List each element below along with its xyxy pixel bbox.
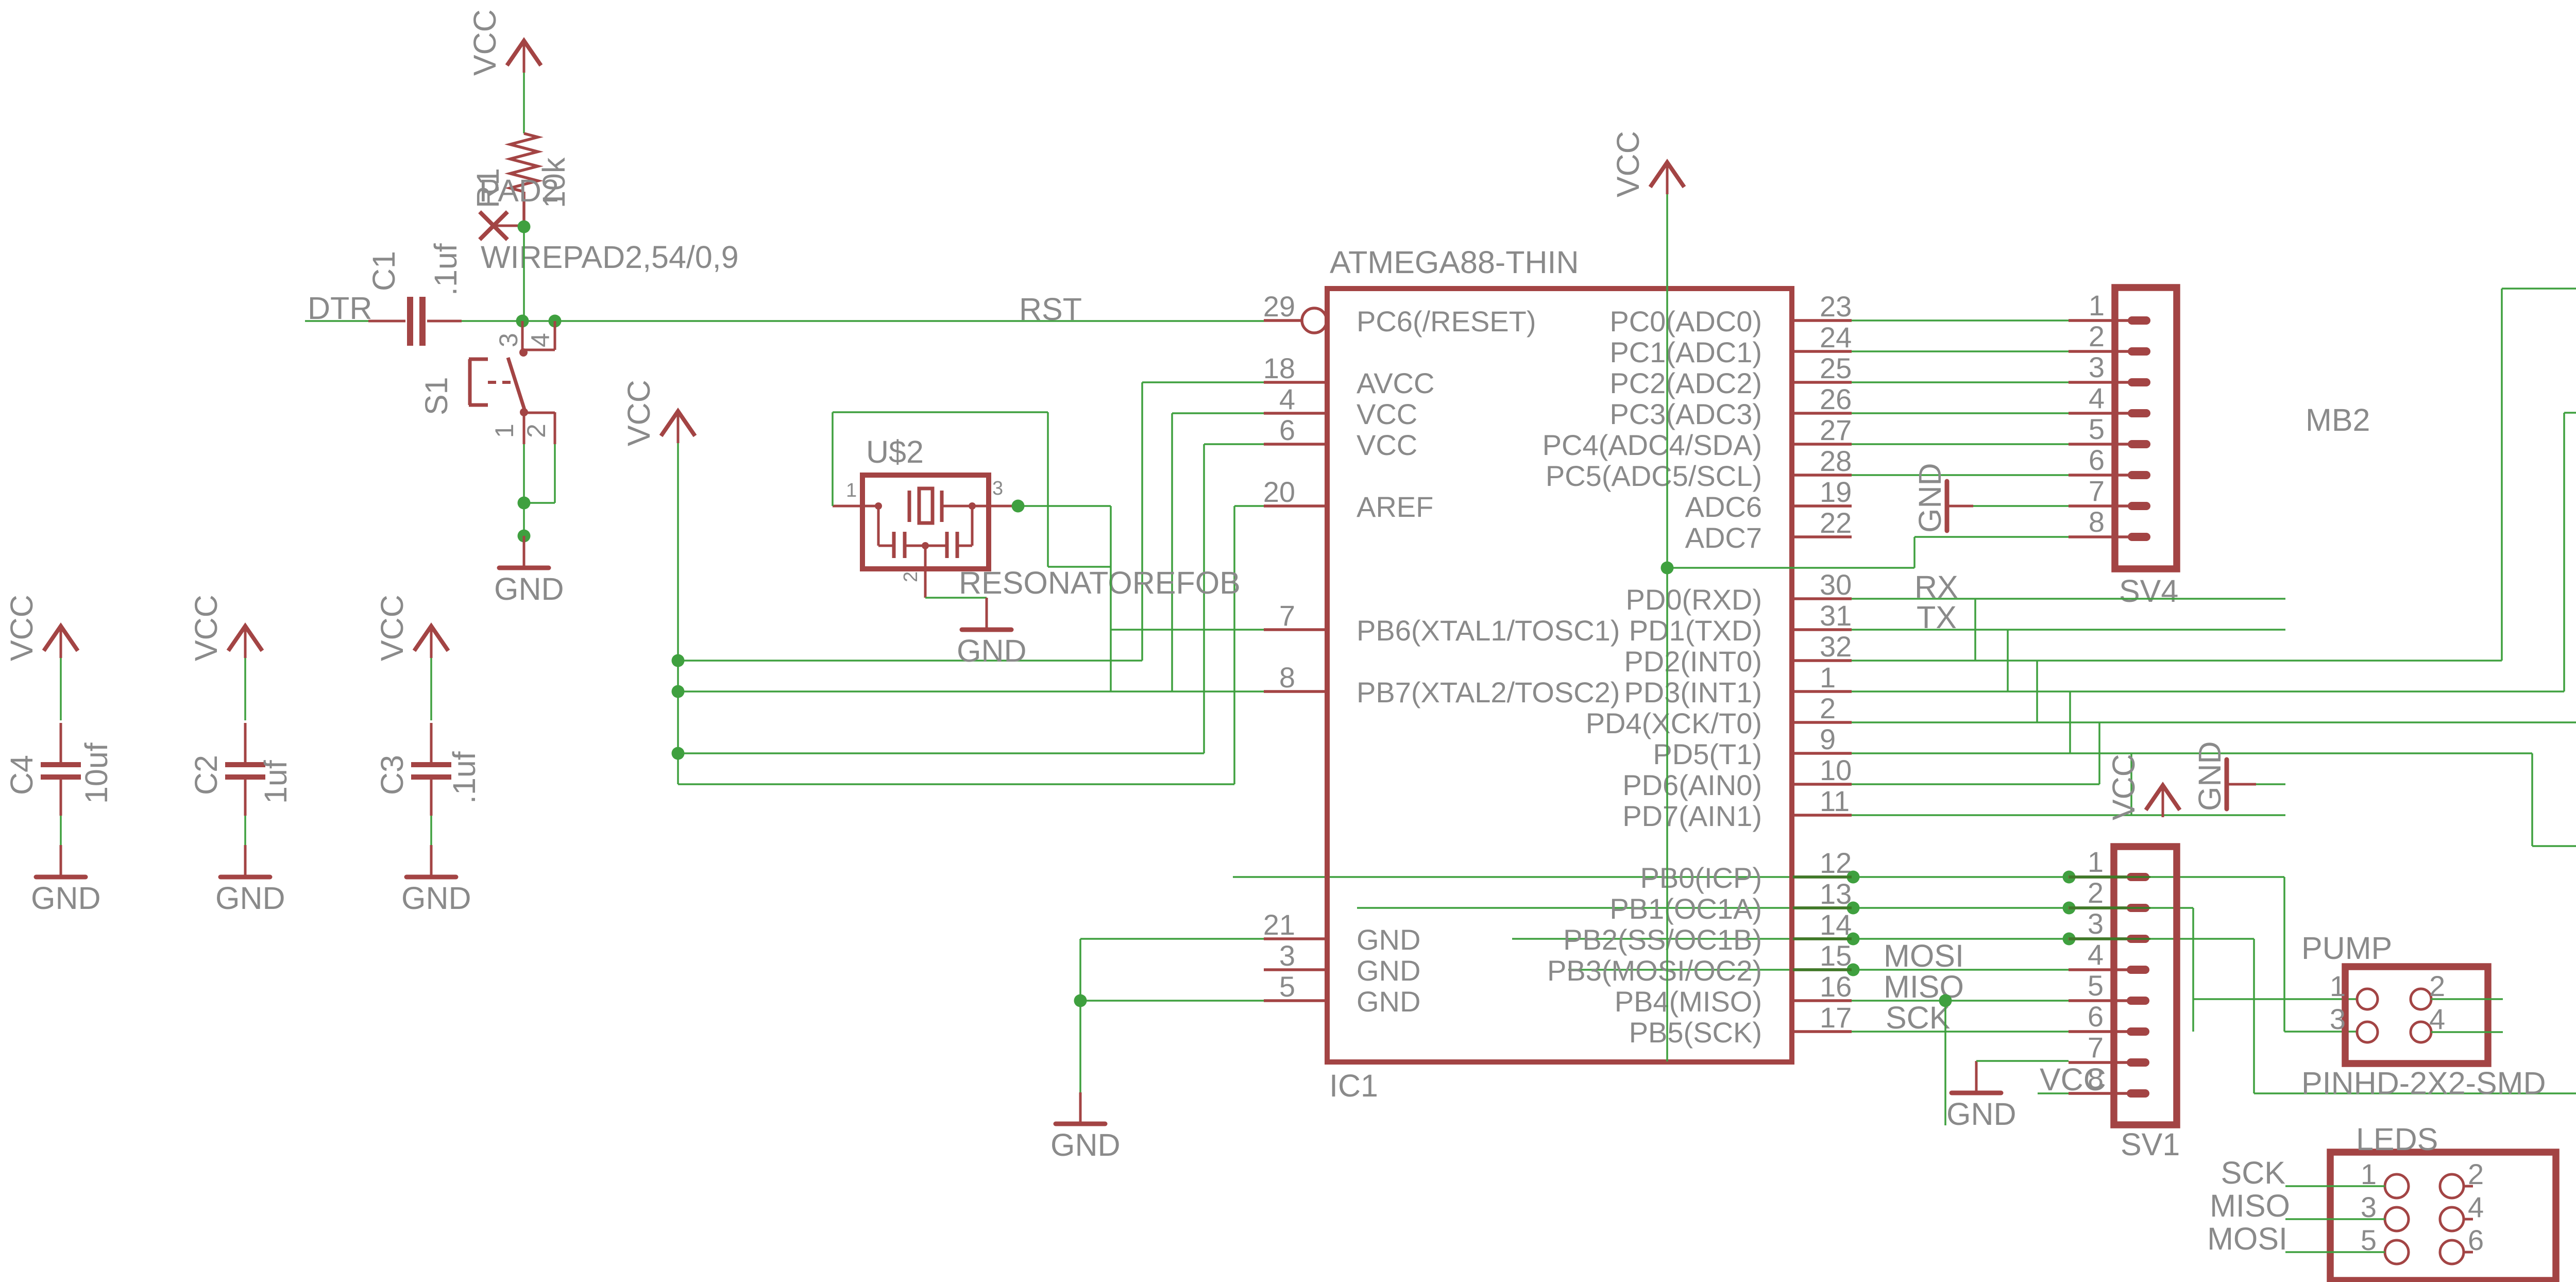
wire feed IR4 pin1 [2532, 845, 2576, 847]
junction MISO row [1939, 994, 1952, 1007]
wire U$2 pin3 to node A [1012, 505, 1111, 507]
svg-text:2: 2 [2088, 876, 2104, 909]
wire PB2 down to MYIR [2253, 939, 2255, 1093]
wire overlap on IC pin [1793, 937, 1852, 940]
wire overlap on SV1 pad [2127, 876, 2150, 878]
svg-text:.1uf: .1uf [447, 751, 482, 804]
ground (rotated) at SV4 pin7 [1912, 463, 1973, 533]
junction R1/PAD2/wire [518, 221, 531, 233]
svg-text:PC5(ADC5/SCL): PC5(ADC5/SCL) [1546, 460, 1762, 492]
wire PC to SV4 [1852, 443, 2069, 445]
svg-text:GND: GND [215, 881, 285, 916]
pin 25 PC2(ADC2) [1792, 381, 1852, 384]
ground (rotated) near PD6 stub [2192, 741, 2256, 811]
connector SV4 (pin header 1x8) [2069, 288, 2178, 609]
svg-text:VCC: VCC [1611, 131, 1646, 197]
svg-text:29: 29 [1263, 290, 1295, 323]
ground at SV1 pin7 [1946, 1061, 2016, 1132]
svg-text:GND: GND [1357, 954, 1420, 987]
svg-text:AVCC: AVCC [1357, 367, 1434, 399]
pin 12 PB0(ICP) [1792, 875, 1852, 879]
VCC supply above R1 [467, 9, 541, 76]
wire VCC pin6 riser [1203, 444, 1205, 753]
svg-text:PC4(ADC4/SDA): PC4(ADC4/SDA) [1543, 429, 1762, 461]
svg-text:C2: C2 [189, 755, 224, 795]
pin 6 VCC [1264, 443, 1327, 446]
junction at IC pin [1847, 902, 1860, 915]
svg-text:24: 24 [1820, 321, 1852, 353]
svg-text:GND: GND [1357, 923, 1420, 956]
wire to pin VCC6 [1204, 443, 1264, 445]
wire C4 to GND [60, 816, 62, 845]
junction GND [1074, 994, 1087, 1007]
pin 8 PB7(XTAL2/TOSC2) [1264, 690, 1327, 693]
wire VCC branch up [1913, 537, 1916, 568]
svg-text:9: 9 [1820, 723, 1836, 755]
svg-text:3: 3 [1279, 939, 1295, 972]
svg-text:PINHD-2X2-SMD: PINHD-2X2-SMD [2301, 1066, 2546, 1101]
wire VCC to SV4 pin8 [1914, 536, 2069, 538]
wire to pin AREF [1234, 505, 1264, 507]
pin 26 PC3(ADC3) [1792, 412, 1852, 415]
svg-text:IC1: IC1 [1329, 1068, 1378, 1103]
svg-text:ADC7: ADC7 [1685, 521, 1762, 554]
wire VCC vertical through IC [1666, 194, 1668, 1061]
svg-text:2: 2 [2089, 320, 2105, 352]
svg-text:5: 5 [2089, 413, 2105, 445]
wire VCC stub SV1 pin8 [2038, 1092, 2069, 1094]
wire overlap on SV1 pin [2069, 906, 2127, 909]
svg-text:2: 2 [2429, 970, 2445, 1002]
wire S1 pins join [524, 502, 555, 504]
wire MOSI to LEDS [2285, 1251, 2385, 1253]
wire riser to IR4 [2531, 753, 2533, 846]
junction U$2 pin3 [1012, 500, 1025, 513]
wire PD3 to IR2 riser [1852, 690, 2564, 693]
svg-text:17: 17 [1820, 1001, 1852, 1034]
svg-text:PB3(MOSI/OC2): PB3(MOSI/OC2) [1547, 954, 1762, 987]
wire to MYIR pin3 [2254, 1092, 2576, 1094]
capacitor C3 .1uf [411, 723, 451, 816]
pin 3 GND [1264, 968, 1327, 971]
svg-text:RST: RST [1019, 292, 1082, 327]
svg-text:1: 1 [846, 480, 857, 501]
wire PB4 MISO to SV1 [1852, 1000, 2069, 1002]
wire RX net (PD0) [1852, 598, 2285, 600]
svg-text:ADC6: ADC6 [1685, 491, 1762, 523]
svg-text:3: 3 [2330, 1003, 2346, 1035]
wire GND vertical [1079, 939, 1081, 1092]
wire overlap on SV1 pin [2069, 937, 2127, 940]
svg-text:PUMP: PUMP [2301, 931, 2392, 966]
wire MISO row drop [1944, 1001, 1946, 1125]
pin 2 PD4(XCK/T0) [1792, 721, 1852, 724]
svg-text:16: 16 [1820, 970, 1852, 1003]
svg-text:26: 26 [1820, 383, 1852, 415]
svg-text:31: 31 [1820, 599, 1852, 632]
svg-text:2: 2 [522, 424, 551, 438]
svg-text:10uf: 10uf [79, 742, 114, 804]
VCC supply above C3 [375, 595, 448, 661]
wire PB0 net across IC to SV1/PUMP [1233, 876, 2284, 878]
svg-text:SV1: SV1 [2121, 1127, 2180, 1162]
svg-text:1: 1 [490, 424, 519, 438]
wire riser to IR2 [2563, 413, 2565, 691]
svg-text:19: 19 [1820, 476, 1852, 508]
capacitor C2 1uf [225, 723, 265, 816]
svg-text:U$2: U$2 [866, 434, 924, 469]
svg-text:SCK: SCK [1886, 1000, 1950, 1035]
wire C3 to GND [430, 816, 432, 845]
svg-text:PC6(/RESET): PC6(/RESET) [1357, 305, 1536, 338]
wirepad PAD2 (X symbol) [479, 173, 739, 275]
svg-text:PB5(SCK): PB5(SCK) [1629, 1016, 1762, 1049]
wire C2 to GND [244, 816, 246, 845]
svg-text:30: 30 [1820, 568, 1852, 601]
svg-text:PD3(INT1): PD3(INT1) [1624, 676, 1762, 709]
wire PD2 to IR1 riser [1852, 660, 2502, 662]
wire overlap on IC pin [1793, 875, 1852, 879]
svg-text:GND: GND [401, 881, 471, 916]
svg-text:25: 25 [1820, 352, 1852, 384]
wire PC to SV4 [1852, 350, 2069, 352]
pin 21 GND [1264, 937, 1327, 940]
wire stair PD1-PD3 [2007, 630, 2009, 691]
pin 31 PD1(TXD) [1792, 628, 1852, 631]
wire RST net C1 to IC PC6 [462, 320, 1264, 322]
wire stair PD5-PD7 [2130, 753, 2132, 815]
wire overlap on IC pin [1793, 968, 1852, 971]
pin 11 PD7(AIN1) [1792, 814, 1852, 817]
pin 9 PD5(T1) [1792, 752, 1852, 755]
svg-text:7: 7 [1279, 599, 1295, 632]
R1 lead to wirepad node [522, 192, 526, 227]
svg-text:GND: GND [957, 633, 1027, 668]
svg-text:27: 27 [1820, 414, 1852, 446]
wire PD7 / VCC stub [1852, 814, 2285, 816]
wire PC to SV4 [1852, 319, 2069, 322]
wire to GND symbol [523, 503, 525, 536]
pin 32 PD2(INT0) [1792, 659, 1852, 662]
svg-text:GND: GND [1912, 463, 1947, 533]
junction at SV1 pin [2063, 933, 2076, 946]
svg-text:PD6(AIN0): PD6(AIN0) [1622, 769, 1762, 801]
resonator U$2 RESONATOREFOB [833, 434, 1241, 600]
wire stair PD0-PD2 [1974, 599, 1976, 661]
pin 22 ADC7 [1792, 535, 1852, 538]
svg-text:14: 14 [1820, 908, 1852, 941]
pin 13 PB1(OC1A) [1792, 906, 1852, 909]
svg-text:1uf: 1uf [258, 760, 293, 804]
svg-text:13: 13 [1820, 878, 1852, 910]
wire GND pin5 [1080, 1000, 1264, 1002]
svg-text:4: 4 [2468, 1191, 2484, 1223]
junction rail AVCC [672, 654, 685, 667]
svg-text:GND: GND [494, 571, 564, 606]
wire S1 pin2 to GND [554, 444, 556, 503]
pin 5 GND [1264, 999, 1327, 1002]
wire PC to SV4 [1852, 412, 2069, 414]
pin 18 AVCC [1264, 381, 1327, 384]
junction at IC pin [1847, 871, 1860, 884]
svg-text:15: 15 [1820, 939, 1852, 972]
switch S1 [419, 321, 555, 444]
svg-text:GND: GND [2192, 741, 2227, 811]
svg-text:11: 11 [1820, 785, 1850, 817]
wire VCC to C2 [244, 658, 246, 720]
svg-text:PC0(ADC0): PC0(ADC0) [1609, 305, 1762, 338]
svg-text:ATMEGA88-THIN: ATMEGA88-THIN [1330, 245, 1579, 280]
wire AVCC riser [1141, 382, 1143, 661]
pin 7 PB6(XTAL1/TOSC1) [1264, 628, 1327, 631]
wire TX net (PD1) [1852, 629, 2285, 631]
svg-text:1: 1 [2330, 970, 2346, 1002]
wire AREF riser [1233, 506, 1235, 784]
pin 1 PD3(INT1) [1792, 690, 1852, 693]
wire to pin AVCC [1142, 381, 1264, 383]
svg-text:8: 8 [2089, 505, 2105, 538]
svg-text:PD0(RXD): PD0(RXD) [1626, 583, 1762, 616]
pin 27 PC4(ADC4/SDA) [1792, 443, 1852, 446]
wire VCC branch to SV4 pin8 [1667, 567, 1914, 569]
svg-text:6: 6 [2468, 1224, 2484, 1256]
wire to PUMP pin1 [2193, 998, 2357, 1000]
svg-text:22: 22 [1820, 507, 1852, 539]
junction rail VCC6 [672, 747, 685, 760]
svg-text:PD7(AIN1): PD7(AIN1) [1622, 800, 1762, 832]
wire stair PD4-PD6 [2098, 722, 2100, 784]
wire overlap on SV1 pin [2069, 875, 2127, 879]
svg-text:4: 4 [2088, 938, 2104, 971]
wire to pin VCC4 [1172, 412, 1264, 414]
wire VCC rail vertical [677, 443, 679, 784]
wire GND to SV1 pin7 [1976, 1060, 2069, 1062]
wire rail to AREF riser [678, 783, 1234, 785]
svg-text:VCC: VCC [375, 595, 410, 661]
pin 23 PC0(ADC0) [1792, 319, 1852, 322]
wire stair PD3-PD5 [2069, 691, 2071, 753]
wire stair PD2-PD4 [2036, 661, 2038, 722]
svg-text:4: 4 [2429, 1003, 2445, 1035]
wire feed IR1 pin1 [2502, 288, 2576, 290]
svg-text:RESONATOREFOB: RESONATOREFOB [959, 565, 1241, 600]
wire VCC to C3 [430, 658, 432, 720]
pin 14 PB2(SS/OC1B) [1792, 937, 1852, 940]
wire PUMP pin4 stub [2431, 1031, 2503, 1033]
svg-text:PD4(XCK/T0): PD4(XCK/T0) [1586, 707, 1762, 739]
svg-text:SV4: SV4 [2119, 573, 2178, 609]
svg-text:32: 32 [1820, 630, 1852, 663]
pin 4 VCC [1264, 412, 1327, 415]
svg-text:PC3(ADC3): PC3(ADC3) [1609, 398, 1762, 430]
svg-text:PB4(MISO): PB4(MISO) [1615, 985, 1762, 1018]
junction VCC branch [1661, 562, 1674, 575]
svg-text:LEDS: LEDS [2356, 1122, 2438, 1157]
wire rail to AVCC riser [678, 660, 1142, 662]
svg-text:GND: GND [1357, 985, 1420, 1018]
capacitor C1 .1uf [366, 243, 463, 346]
connector LEDS (2x3) [2330, 1122, 2556, 1280]
svg-text:23: 23 [1820, 290, 1852, 323]
svg-text:MISO: MISO [1884, 969, 1964, 1004]
wire MISO to LEDS [2285, 1218, 2385, 1220]
svg-text:12: 12 [1820, 847, 1852, 879]
VCC supply rail left of IC [621, 380, 695, 446]
ground under C4 [31, 845, 101, 916]
ground under C3 [401, 845, 471, 916]
svg-text:VCC: VCC [1357, 429, 1417, 461]
svg-text:C3: C3 [375, 755, 410, 795]
wire feed IR2 top [2564, 412, 2576, 414]
VCC supply above C2 [189, 595, 262, 661]
wire bridge over U$2 [833, 411, 1048, 413]
wire bridge down [1047, 412, 1049, 567]
junction rail VCC4 [672, 685, 685, 698]
pin 28 PC5(ADC5/SCL) [1792, 474, 1852, 477]
svg-text:3: 3 [494, 333, 523, 347]
svg-text:2: 2 [2468, 1158, 2484, 1190]
wire to PUMP pin3 [2284, 1031, 2357, 1033]
svg-text:RX: RX [1914, 569, 1958, 604]
wire PB2 net across IC to SV1/MYIR [1512, 938, 2254, 940]
svg-text:6: 6 [1279, 414, 1295, 446]
junction at IC pin [1847, 933, 1860, 946]
junction at IC pin [1847, 964, 1860, 976]
wire S1 pin1 to GND [523, 444, 525, 503]
wire bridge to node A [1048, 566, 1111, 568]
svg-text:5: 5 [2088, 969, 2104, 1002]
svg-text:GND: GND [31, 881, 101, 916]
svg-text:GND: GND [1050, 1127, 1121, 1162]
wire node A vertical [1110, 506, 1112, 691]
wire U$2 pin2 to GND [925, 597, 987, 599]
svg-text:VCC: VCC [1357, 398, 1417, 430]
svg-text:PD5(T1): PD5(T1) [1653, 738, 1762, 770]
wire GND to SV4 pin7 [1973, 505, 2069, 507]
junction S1 gnd 2 [518, 530, 531, 543]
connector SV1 (pin header 1x8) [2069, 846, 2180, 1162]
junction RST/S1 pin3 [516, 315, 529, 328]
svg-text:2: 2 [1820, 692, 1836, 724]
wire rail to VCC pin6 riser [678, 752, 1204, 754]
wire GND stub [2256, 783, 2285, 785]
wire PB1 net across IC to SV1/PUMP [1357, 907, 2193, 909]
wire PB3 MOSI net across IC to SV1 [1568, 969, 2069, 971]
svg-text:20: 20 [1263, 476, 1295, 508]
wire to pin PB6 [1111, 629, 1264, 631]
pin 20 AREF [1264, 504, 1327, 508]
wire SCK to LEDS [2285, 1185, 2385, 1187]
junction RST/S1 pin4 [549, 315, 562, 328]
wire PC to SV4 [1852, 474, 2069, 476]
wire VCC to R1 [523, 73, 525, 133]
wire GND pin21 [1080, 938, 1264, 940]
wire VCC to C4 [60, 658, 62, 720]
wire PUMP pin2 stub [2431, 998, 2503, 1000]
VCC supply above IC [1611, 131, 1684, 197]
svg-text:3: 3 [2088, 907, 2104, 940]
svg-text:MOSI: MOSI [1884, 938, 1964, 973]
svg-text:6: 6 [2088, 1000, 2104, 1033]
VCC supply on PD7 row [2106, 754, 2180, 820]
pin 10 PD6(AIN0) [1792, 783, 1852, 786]
svg-text:7: 7 [2089, 475, 2105, 507]
wire VCC pin4 riser [1171, 413, 1173, 691]
svg-text:PD2(INT0): PD2(INT0) [1624, 645, 1762, 678]
svg-text:PB6(XTAL1/TOSC1): PB6(XTAL1/TOSC1) [1357, 614, 1620, 647]
connector PUMP (2x2 SMD) [2301, 931, 2546, 1101]
svg-text:VCC: VCC [189, 595, 224, 661]
svg-text:1: 1 [2089, 289, 2105, 322]
pin 16 PB4(MISO) [1792, 999, 1852, 1002]
svg-text:MOSI: MOSI [2207, 1221, 2287, 1256]
ground under C2 [215, 845, 285, 916]
wire overlap on SV1 pad [2127, 938, 2150, 940]
pin 15 PB3(MOSI/OC2) [1792, 968, 1852, 971]
capacitor C4 10uf [41, 723, 81, 816]
ground under U$2 [957, 598, 1027, 668]
svg-text:5: 5 [1279, 970, 1295, 1003]
pin 17 PB5(SCK) [1792, 1030, 1852, 1033]
wire wirepad node to DTR/RST net [523, 227, 525, 321]
svg-text:S1: S1 [419, 377, 454, 415]
wire PD6 [1852, 783, 2099, 785]
svg-text:GND: GND [1946, 1097, 2016, 1132]
svg-text:C4: C4 [4, 755, 39, 795]
svg-text:18: 18 [1263, 352, 1295, 384]
wire overlap on IC pin [1793, 906, 1852, 909]
wire riser to IR1 [2501, 289, 2503, 661]
junction at SV1 pin [2063, 871, 2076, 884]
svg-text:AREF: AREF [1357, 491, 1433, 523]
wire PC to SV4 [1852, 381, 2069, 383]
svg-text:C1: C1 [366, 251, 401, 291]
svg-text:PB1(OC1A): PB1(OC1A) [1609, 892, 1762, 925]
svg-text:PB2(SS/OC1B): PB2(SS/OC1B) [1563, 923, 1762, 956]
svg-text:TX: TX [1917, 600, 1957, 635]
svg-text:VCC: VCC [2040, 1062, 2106, 1097]
wire overlap on SV1 pad [2127, 907, 2150, 909]
svg-text:SCK: SCK [2221, 1155, 2285, 1190]
pin 24 PC1(ADC1) [1792, 350, 1852, 353]
svg-text:.1uf: .1uf [428, 243, 463, 296]
wire PB5 SCK to SV1 [1852, 1031, 2069, 1033]
pin 30 PD0(RXD) [1792, 597, 1852, 600]
svg-text:28: 28 [1820, 445, 1852, 477]
svg-text:4: 4 [526, 333, 555, 347]
pin 29 PC6(/RESET) with bubble [1264, 319, 1302, 322]
svg-text:PAD2: PAD2 [479, 173, 559, 208]
svg-text:8: 8 [1279, 661, 1295, 694]
VCC supply above C4 [4, 595, 78, 661]
svg-text:PB7(XTAL2/TOSC2): PB7(XTAL2/TOSC2) [1357, 676, 1620, 709]
svg-text:10: 10 [1820, 754, 1852, 786]
junction S1 gnd [518, 497, 531, 510]
wire rail to VCC pin4 / PB7 row [678, 690, 1265, 693]
svg-text:WIREPAD2,54/0,9: WIREPAD2,54/0,9 [481, 240, 739, 275]
wire PD5 to IR4 riser [1852, 752, 2532, 754]
svg-text:MB2: MB2 [2306, 402, 2370, 437]
svg-text:3: 3 [2089, 351, 2105, 383]
svg-text:2: 2 [900, 571, 922, 582]
resistor R1 10k [470, 133, 571, 208]
ground under IC [1050, 1092, 1121, 1162]
pin 19 ADC6 [1792, 504, 1852, 508]
svg-text:4: 4 [1279, 383, 1295, 415]
svg-text:21: 21 [1263, 908, 1295, 941]
wire DTR to C1 [305, 320, 368, 322]
wire PD4 to IR3 riser [1852, 721, 2576, 723]
